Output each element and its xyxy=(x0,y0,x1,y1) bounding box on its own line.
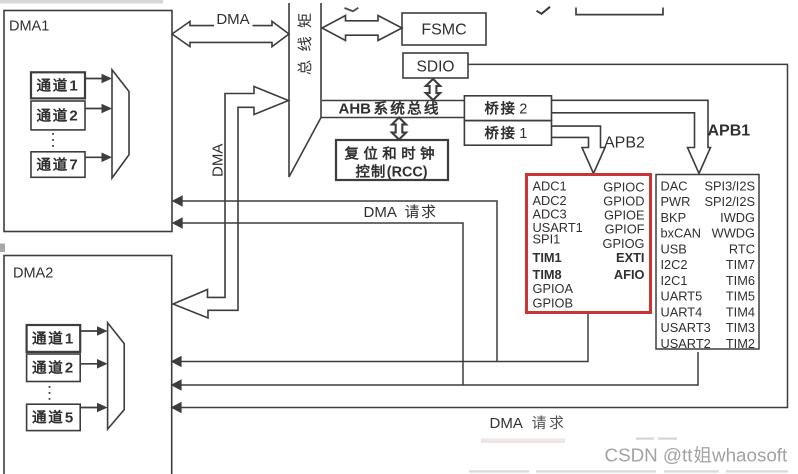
svg-text:GPIOC: GPIOC xyxy=(603,180,644,195)
svg-text:GPIOF: GPIOF xyxy=(605,222,645,237)
svg-text:DMA2: DMA2 xyxy=(13,266,53,282)
svg-text:USART3: USART3 xyxy=(661,320,711,335)
svg-text:5: 5 xyxy=(65,409,73,426)
svg-text:USART2: USART2 xyxy=(661,336,711,351)
svg-text:AFIO: AFIO xyxy=(614,267,645,282)
svg-text:TIM4: TIM4 xyxy=(726,304,755,319)
svg-text:1: 1 xyxy=(69,78,77,95)
svg-text:TIM1: TIM1 xyxy=(533,250,562,265)
svg-text:APB2: APB2 xyxy=(604,135,645,152)
svg-text:FSMC: FSMC xyxy=(421,22,466,39)
svg-text:1: 1 xyxy=(519,126,527,142)
svg-text:RTC: RTC xyxy=(729,241,755,256)
svg-text:ADC1: ADC1 xyxy=(533,179,567,194)
svg-text:DMA: DMA xyxy=(210,144,227,177)
svg-text:UART4: UART4 xyxy=(661,304,703,319)
svg-text:GPIOA: GPIOA xyxy=(533,281,574,296)
svg-text:TIM6: TIM6 xyxy=(726,273,755,288)
svg-text:1: 1 xyxy=(65,330,73,347)
svg-text:TIM8: TIM8 xyxy=(533,267,562,282)
svg-text:PWR: PWR xyxy=(661,194,691,209)
svg-text:USB: USB xyxy=(661,241,687,256)
svg-text:2: 2 xyxy=(65,360,73,377)
svg-text:2: 2 xyxy=(69,108,77,125)
svg-text:EXTI: EXTI xyxy=(616,250,644,265)
svg-text:DMA1: DMA1 xyxy=(9,19,49,35)
svg-text:GPIOE: GPIOE xyxy=(604,208,645,223)
svg-text:I2C1: I2C1 xyxy=(661,273,688,288)
svg-text:TIM5: TIM5 xyxy=(726,289,755,304)
svg-text:DMA: DMA xyxy=(490,415,523,432)
svg-text:GPIOD: GPIOD xyxy=(603,194,644,209)
svg-text:SPI2/I2S: SPI2/I2S xyxy=(704,194,755,209)
svg-text:IWDG: IWDG xyxy=(720,210,755,225)
svg-text:DAC: DAC xyxy=(661,178,688,193)
svg-text:I2C2: I2C2 xyxy=(661,257,688,272)
svg-text:UART5: UART5 xyxy=(661,289,703,304)
svg-text:2: 2 xyxy=(519,101,527,117)
svg-text:APB1: APB1 xyxy=(708,123,751,140)
svg-text:(RCC): (RCC) xyxy=(387,165,428,181)
svg-text:CSDN @tt: CSDN @tt xyxy=(605,445,694,466)
svg-text:BKP: BKP xyxy=(661,210,687,225)
svg-text:TIM2: TIM2 xyxy=(726,336,755,351)
svg-text:GPIOB: GPIOB xyxy=(533,296,574,311)
svg-text:whaosoft: whaosoft xyxy=(711,445,788,466)
svg-text:SDIO: SDIO xyxy=(417,59,455,76)
svg-text:7: 7 xyxy=(69,157,77,174)
svg-text:TIM7: TIM7 xyxy=(726,257,755,272)
svg-text:bxCAN: bxCAN xyxy=(661,226,702,241)
svg-text:SPI1: SPI1 xyxy=(533,232,561,247)
svg-text:DMA: DMA xyxy=(216,11,249,28)
svg-text:GPIOG: GPIOG xyxy=(603,236,645,251)
svg-text:TIM3: TIM3 xyxy=(726,320,755,335)
svg-text:AHB: AHB xyxy=(339,101,372,118)
svg-text:SPI3/I2S: SPI3/I2S xyxy=(704,178,755,193)
svg-text:DMA: DMA xyxy=(364,204,397,221)
svg-text:WWDG: WWDG xyxy=(712,226,755,241)
